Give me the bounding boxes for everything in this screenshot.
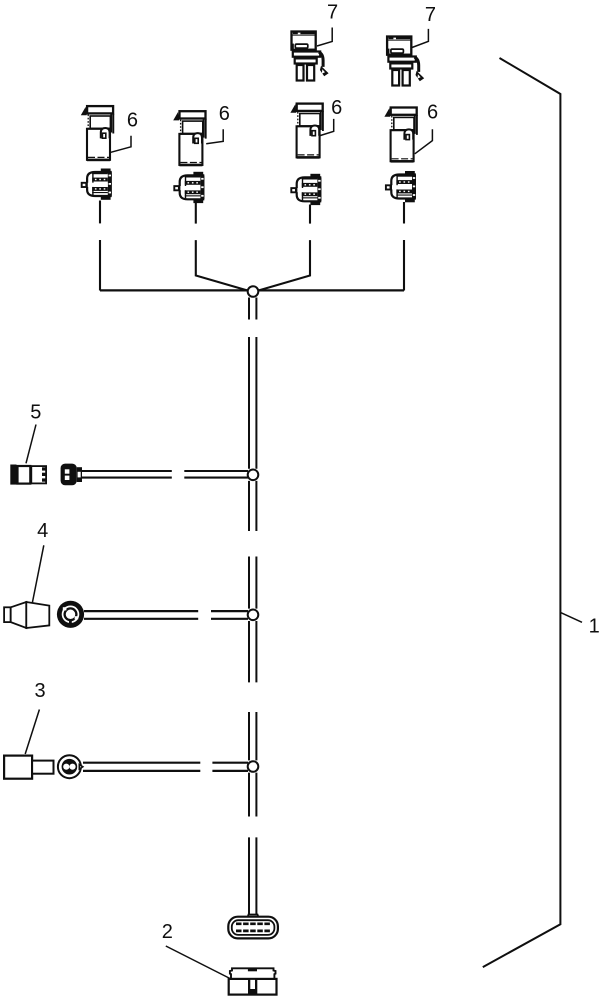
- bracket item 1: [483, 58, 561, 967]
- svg-text:4: 4: [37, 520, 48, 542]
- wire from connector 6 #4: [403, 202, 405, 291]
- connector 5 plug housing: [10, 465, 46, 485]
- wire from connector 6 #3: [258, 205, 310, 291]
- item 2 cap component: [229, 968, 277, 995]
- connector 4 ring terminal on wire: [57, 601, 84, 628]
- connector 7 #2 body: [387, 37, 424, 86]
- junction node main: [248, 286, 259, 297]
- connector 3 ring terminal on wire: [58, 755, 83, 778]
- connector 6 #1 round terminal: [82, 169, 112, 200]
- connector 4 cone housing: [4, 602, 49, 628]
- branch wire to connector 4: [84, 611, 248, 619]
- svg-text:6: 6: [127, 110, 138, 132]
- junction node branch 3: [248, 761, 259, 772]
- svg-text:2: 2: [162, 921, 173, 943]
- leader line to label 1: [560, 612, 582, 622]
- connector 6 #2 round terminal: [174, 172, 204, 203]
- wire from connector 6 #2: [196, 203, 248, 291]
- wire from connector 6 #1: [99, 201, 101, 291]
- svg-text:6: 6: [219, 103, 230, 125]
- connector 6 #3 body: [290, 104, 323, 159]
- leader line to label 6 #2: [206, 129, 223, 144]
- leader line to label 6 #3: [320, 119, 334, 136]
- svg-text:7: 7: [327, 2, 338, 24]
- leader line to label 7 #1: [317, 28, 332, 47]
- leader line to label 7 #2: [412, 29, 428, 48]
- svg-text:3: 3: [35, 680, 46, 702]
- svg-text:7: 7: [425, 4, 436, 26]
- junction node branch 5: [248, 470, 259, 481]
- leader line to label 6 #1: [111, 136, 131, 153]
- branch wire to connector 3: [83, 763, 248, 771]
- connector 6 #4 round terminal: [386, 171, 416, 202]
- svg-text:6: 6: [331, 97, 342, 119]
- leader line to label 6 #4: [415, 129, 433, 154]
- leader line to label 4: [32, 545, 44, 603]
- junction node branch 4: [248, 610, 259, 621]
- svg-text:6: 6: [427, 102, 438, 124]
- connector 6 #2 body: [173, 111, 206, 166]
- connector 6 #1 body: [81, 106, 114, 161]
- leader line to label 5: [26, 425, 36, 464]
- connector 3 rectangular housing: [4, 756, 53, 779]
- main trunk double wire: [249, 298, 256, 915]
- harness bus wire: [100, 289, 404, 291]
- trunk end flat connector: [228, 915, 278, 939]
- connector 6 #4 body: [384, 108, 417, 163]
- svg-text:5: 5: [30, 402, 41, 424]
- leader line to label 2: [166, 946, 230, 979]
- leader line to label 3: [25, 710, 39, 755]
- svg-text:1: 1: [589, 615, 600, 637]
- connector 6 #3 round terminal: [291, 174, 321, 205]
- connector 7 #1 body: [292, 32, 329, 81]
- connector 5 mating terminal on wire: [61, 464, 82, 486]
- branch wire to connector 5: [82, 471, 248, 478]
